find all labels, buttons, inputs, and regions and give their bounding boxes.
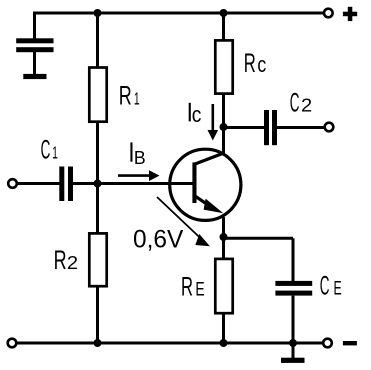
wire top rail: [35, 12, 325, 15]
ground bar top-left: [23, 74, 46, 79]
wire right branch from rail to Rc: [222, 13, 225, 40]
svg-text:E: E: [334, 279, 342, 300]
svg-text:c: c: [257, 52, 266, 77]
wire C1 to base: [73, 182, 193, 185]
capacitor C2 left plate: [264, 110, 269, 145]
capacitor C1 right plate: [68, 167, 73, 202]
node top rail left junction: [94, 9, 102, 17]
wire from top rail down to supply capacitor: [33, 12, 36, 40]
svg-text:B: B: [134, 147, 146, 168]
svg-text:R: R: [54, 245, 67, 275]
wire C2 to output terminal: [277, 126, 324, 129]
transistor emitter diagonal: [194, 195, 214, 209]
svg-text:1: 1: [134, 89, 140, 109]
capacitor C2 right plate: [272, 110, 277, 145]
svg-text:c: c: [192, 102, 202, 127]
wire bottom rail: [17, 342, 324, 345]
wire R1 to base node: [96, 123, 99, 233]
capacitor CE top plate: [275, 281, 312, 286]
node ground junction: [289, 339, 297, 347]
transistor base bar: [192, 162, 196, 203]
ground bar: [281, 358, 305, 363]
svg-text:C: C: [320, 271, 330, 301]
arrow IB: [118, 174, 151, 177]
resistor Rc: [215, 40, 232, 93]
svg-text:R: R: [181, 271, 193, 301]
node RE bottom junction: [220, 339, 228, 347]
svg-text:R: R: [244, 48, 256, 78]
wire CE to bottom rail: [292, 296, 295, 343]
resistor RE: [215, 259, 232, 313]
wire emitter down: [222, 217, 225, 258]
resistor R2: [89, 233, 106, 286]
node bottom rail left junction: [94, 339, 102, 347]
svg-text:2: 2: [301, 95, 312, 115]
wire collector to C2: [224, 126, 265, 129]
capacitor supply decoupling top plate: [16, 38, 53, 43]
minus symbol: [343, 341, 357, 345]
wire RE to bottom rail: [222, 315, 225, 344]
svg-text:E: E: [195, 279, 204, 300]
wire capacitor to ground bar: [33, 52, 36, 75]
svg-text:0,6V: 0,6V: [133, 225, 184, 253]
wire left branch vertical (R1/R2): [96, 13, 99, 67]
terminal output right: [325, 123, 334, 132]
capacitor C1 left plate: [59, 167, 64, 202]
svg-text:1: 1: [52, 143, 58, 163]
svg-text:C: C: [290, 87, 300, 117]
wire emitter to CE branch: [224, 237, 294, 240]
svg-text:C: C: [41, 135, 51, 165]
capacitor supply decoupling bottom plate: [16, 47, 53, 52]
wire Rc to collector: [222, 94, 225, 153]
wire CE branch down: [292, 238, 295, 281]
svg-text:R: R: [119, 81, 132, 111]
svg-text:2: 2: [67, 253, 78, 273]
transistor Q1 circle: [170, 149, 241, 220]
arrow Ic: [212, 104, 215, 133]
node top rail right junction: [220, 9, 228, 17]
node emitter junction: [220, 233, 228, 241]
plus symbol: [343, 12, 357, 17]
capacitor CE bottom plate: [275, 291, 312, 296]
ground stub: [292, 343, 295, 358]
node collector junction: [220, 123, 228, 131]
transistor collector diagonal: [194, 153, 224, 165]
terminal bottom left: [8, 339, 17, 348]
wire R2 to bottom rail: [96, 288, 99, 344]
node base junction: [94, 180, 102, 188]
resistor R1: [89, 68, 106, 122]
terminal input left: [8, 179, 17, 188]
wire input to C1: [17, 182, 60, 185]
transistor emitter arrowhead: [204, 199, 224, 214]
arrow 0,6V: [157, 197, 204, 242]
terminal plus top right: [324, 9, 333, 18]
terminal minus bottom right: [323, 339, 332, 348]
